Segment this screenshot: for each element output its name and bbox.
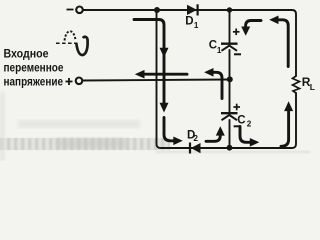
diode D1 [185, 4, 199, 30]
C1 plus mark [233, 29, 240, 36]
diode D2 [187, 130, 201, 154]
C2 plus mark [233, 104, 240, 111]
wire: right rail lower + bottom rail + left vertical rail [157, 11, 297, 149]
scan smudge band upper [18, 120, 140, 128]
svg-text:переменное: переменное [4, 61, 64, 75]
current arrow: above RL bend left (P5) [269, 16, 288, 67]
terminal minus (top-left) [67, 7, 83, 14]
current arrow: long left toward input (P8) [135, 70, 187, 79]
current arrow: bottom-left bend right (P2) [164, 118, 183, 146]
scan shadow under bottom rail [156, 151, 310, 154]
input label text [4, 47, 64, 89]
current arrow: into C1 plus (P6) [241, 21, 261, 36]
svg-text:C: C [237, 114, 245, 126]
svg-text:1: 1 [194, 21, 199, 30]
node junction mid (C1/C2 midpoint) [227, 76, 233, 82]
node junction top (capacitor branch) [227, 7, 232, 12]
capacitor C2 [221, 104, 252, 129]
current arrow: top-left bend down (P1) [134, 20, 169, 113]
scan smudge left edge [0, 92, 5, 161]
C1 minus mark [234, 53, 241, 55]
resistor RL label [302, 75, 315, 92]
wire: top rail from minus terminal to top-right corner, right rail upper [84, 10, 297, 76]
svg-text:Входное: Входное [4, 47, 49, 61]
input AC waveform symbol [56, 31, 88, 55]
current arrow: bottom-right bend right (P4) [240, 127, 259, 147]
svg-text:1: 1 [217, 46, 222, 55]
current arrow: up through RL (P7) [281, 101, 293, 146]
wire: input plus lead to midpoint junction [83, 80, 230, 81]
paper background [0, 0, 320, 161]
svg-text:C: C [209, 39, 217, 51]
C2 minus mark [234, 125, 241, 127]
terminal plus (input) [66, 78, 83, 86]
wire: capacitor branch C1/C2 [229, 10, 231, 43]
svg-text:D: D [185, 16, 193, 28]
svg-text:2: 2 [193, 134, 198, 143]
svg-text:L: L [310, 82, 315, 92]
scan streak band bottom [0, 138, 170, 150]
node junction bottom (C2 to bottom rail) [227, 145, 233, 151]
svg-text:2: 2 [247, 119, 252, 128]
node junction top (left vertical rail) [154, 7, 160, 13]
current arrow: from C2 plus up-left (P9) [204, 68, 222, 99]
current arrow: bottom-middle bend up (P3) [206, 126, 225, 141]
capacitor C1 [209, 29, 241, 55]
svg-text:напряжение: напряжение [4, 75, 64, 89]
resistor RL [293, 76, 300, 93]
